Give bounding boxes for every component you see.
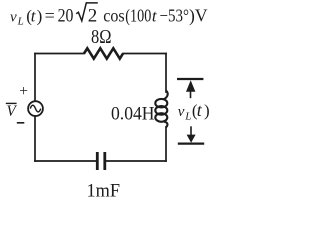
svg-text:−53°: −53° bbox=[160, 6, 190, 26]
svg-text:=: = bbox=[45, 6, 55, 26]
svg-text:cos: cos bbox=[103, 6, 124, 26]
svg-text:): ) bbox=[37, 7, 43, 26]
svg-text:+: + bbox=[19, 83, 28, 100]
svg-text:L: L bbox=[184, 110, 191, 122]
svg-text:L: L bbox=[17, 15, 24, 27]
svg-text:1mF: 1mF bbox=[87, 180, 121, 201]
svg-text:)V: )V bbox=[189, 6, 208, 27]
svg-text:V: V bbox=[7, 103, 18, 120]
svg-text:(100: (100 bbox=[125, 6, 151, 27]
svg-text:v: v bbox=[178, 104, 185, 120]
svg-text:20: 20 bbox=[58, 6, 74, 27]
svg-text:t: t bbox=[152, 7, 158, 26]
svg-text:): ) bbox=[204, 101, 210, 120]
svg-text:8Ω: 8Ω bbox=[91, 26, 112, 48]
svg-text:t: t bbox=[197, 100, 203, 120]
svg-text:2: 2 bbox=[88, 6, 98, 27]
svg-text:0.04H: 0.04H bbox=[111, 104, 155, 125]
svg-text:v: v bbox=[10, 9, 17, 25]
